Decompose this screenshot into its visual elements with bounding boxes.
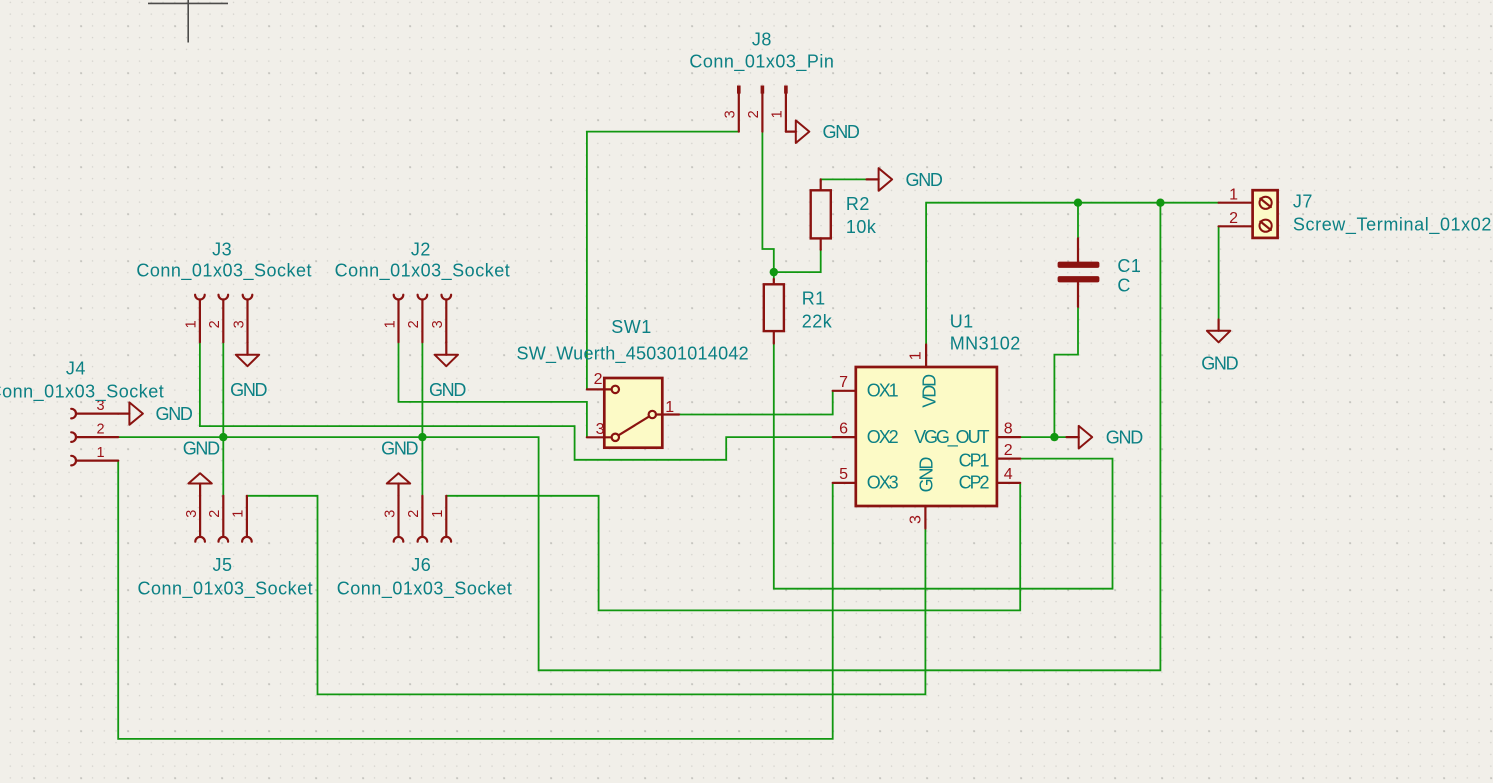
svg-text:1: 1 (382, 320, 398, 328)
svg-text:Screw_Terminal_01x02: Screw_Terminal_01x02 (1293, 215, 1492, 236)
connector J8 (737, 86, 788, 132)
ground arrow J4 pin3 (118, 402, 143, 424)
svg-text:J6: J6 (411, 555, 431, 575)
pin number J2-2 (406, 320, 422, 328)
svg-text:1: 1 (231, 510, 247, 518)
svg-text:GND: GND (1201, 354, 1238, 374)
svg-text:GND: GND (916, 457, 936, 493)
value C (1117, 276, 1131, 296)
pin number J8-3 (723, 110, 739, 118)
wire node A to R1 top (773, 272, 775, 281)
pin number U1-3 (908, 515, 925, 524)
value 10k (846, 217, 877, 237)
pin number U1-5 (839, 466, 848, 483)
value Conn_01x03_Socket J4 (0, 381, 164, 402)
svg-text:3: 3 (723, 110, 739, 118)
svg-text:SW1: SW1 (611, 317, 652, 337)
svg-text:1: 1 (430, 510, 446, 518)
pin number J5-1 (231, 510, 247, 518)
pin number U1-8 (1004, 420, 1013, 437)
pin number J6-2 (406, 510, 422, 518)
svg-text:J7: J7 (1293, 192, 1313, 212)
wire J6 pin1 to U1 CP2 (446, 484, 1020, 611)
svg-text:J3: J3 (212, 240, 232, 260)
pin number J2-3 (430, 320, 446, 328)
label J8 (752, 29, 772, 49)
pin number U1-1 (908, 351, 925, 360)
svg-text:U1: U1 (950, 311, 974, 331)
pin name CP1 (959, 451, 990, 471)
svg-text:R2: R2 (846, 194, 870, 214)
svg-text:Conn_01x03_Socket: Conn_01x03_Socket (136, 261, 312, 282)
value Conn_01x03_Pin (689, 51, 834, 72)
svg-text:GND: GND (823, 122, 860, 142)
wire J4 pin1 to U1 OX3 (118, 461, 833, 739)
svg-text:1: 1 (184, 320, 200, 328)
pin name OX3 (867, 473, 899, 493)
switch SW1 (587, 378, 679, 448)
svg-text:8: 8 (1004, 420, 1013, 437)
wire C1 bottom to node C (1054, 306, 1078, 437)
wire U1 VGG_OUT to GND arrow (1020, 436, 1067, 438)
pin number SW1-1 (665, 399, 674, 416)
svg-text:3: 3 (596, 421, 605, 438)
junction node A (770, 268, 778, 276)
connector J4 (71, 409, 118, 466)
svg-text:Conn_01x03_Socket: Conn_01x03_Socket (0, 381, 164, 402)
pin number J3-1 (184, 320, 200, 328)
label SW1 (611, 317, 652, 337)
value Conn_01x03_Socket J2 (335, 261, 511, 282)
svg-text:GND: GND (429, 380, 466, 400)
svg-text:C: C (1117, 276, 1131, 296)
pin number SW1-2 (594, 371, 603, 388)
svg-text:1: 1 (96, 445, 104, 461)
ground symbol J2 pin3 (435, 342, 458, 366)
pin number U1-4 (1004, 466, 1013, 483)
svg-text:3: 3 (908, 515, 925, 524)
svg-text:J8: J8 (752, 29, 772, 49)
svg-text:2: 2 (746, 110, 762, 118)
svg-text:2: 2 (1004, 442, 1013, 459)
svg-text:1: 1 (908, 351, 925, 360)
label GND at J8 (823, 122, 860, 142)
pin number J6-3 (382, 510, 398, 518)
pin name CP2 (959, 473, 990, 493)
value 22k (802, 311, 833, 331)
svg-text:GND: GND (156, 404, 193, 424)
label J5 (212, 555, 232, 575)
svg-text:VGG_OUT: VGG_OUT (914, 427, 989, 448)
svg-text:1: 1 (770, 110, 786, 118)
connector J2 (394, 295, 451, 342)
svg-text:J4: J4 (66, 359, 86, 379)
pin name OX1 (867, 381, 899, 401)
svg-text:4: 4 (1004, 466, 1013, 483)
junction node B (J3/J5) (219, 433, 227, 441)
svg-text:C1: C1 (1117, 256, 1141, 276)
pin number J5-2 (207, 510, 223, 518)
pin number J3-2 (207, 320, 223, 328)
svg-text:3: 3 (184, 510, 200, 518)
pin number J4-2 (96, 421, 104, 437)
value SW_Wuerth_450301014042 (517, 344, 749, 365)
svg-text:2: 2 (207, 510, 223, 518)
ground arrow R2 (867, 168, 893, 191)
svg-text:SW_Wuerth_450301014042: SW_Wuerth_450301014042 (517, 344, 749, 365)
pin number J2-1 (382, 320, 398, 328)
value Conn_01x03_Socket J6 (337, 578, 513, 599)
wire J7 pin2 to GND (1218, 226, 1220, 319)
label GND at J4 (156, 404, 193, 424)
label GND at J6 (381, 439, 418, 459)
wire GND net J4 pin2 long (118, 203, 1160, 671)
resistor R1 (764, 279, 784, 344)
wire J8 pin3 to SW1 pin2 (587, 132, 739, 390)
label J3 (212, 240, 232, 260)
wire J3 pin2 to J5 pin2 (222, 342, 224, 496)
svg-text:6: 6 (839, 420, 848, 437)
wire R2 bottom to node A (774, 249, 821, 272)
pin name OX2 (867, 427, 899, 447)
junction C1 top (1074, 199, 1082, 207)
label J2 (411, 240, 431, 260)
connector J7 screw terminal (1219, 190, 1278, 238)
svg-text:2: 2 (96, 421, 104, 437)
value Conn_01x03_Socket J3 (136, 261, 312, 282)
pin number J4-3 (96, 398, 104, 414)
svg-text:OX3: OX3 (867, 473, 899, 493)
wire R1 bottom to U1 CP1 (774, 342, 1113, 589)
svg-text:R1: R1 (802, 288, 826, 308)
svg-text:2: 2 (594, 371, 603, 388)
svg-text:Conn_01x03_Socket: Conn_01x03_Socket (137, 578, 313, 599)
svg-text:1: 1 (665, 399, 674, 416)
svg-text:J5: J5 (212, 555, 232, 575)
ground symbol J3 pin3 (236, 342, 259, 366)
pin number J5-3 (184, 510, 200, 518)
wire J3 pin1 to U1 OX2 (200, 342, 833, 460)
IC U1 MN3102 (833, 345, 1021, 529)
svg-text:5: 5 (839, 466, 848, 483)
pin number U1-6 (839, 420, 848, 437)
pin number J7-1 (1229, 186, 1238, 203)
label GND at J2 (429, 380, 466, 400)
label C1 (1117, 256, 1141, 276)
pin number J4-1 (96, 445, 104, 461)
svg-text:GND: GND (230, 380, 267, 400)
svg-text:10k: 10k (846, 217, 877, 237)
svg-text:1: 1 (1229, 186, 1238, 203)
wire U1 VDD to J7 pin1 (926, 203, 1219, 345)
ground symbol J5 pin3 up (188, 473, 211, 496)
pin number J8-2 (746, 110, 762, 118)
pin number J7-2 (1229, 210, 1238, 227)
value Screw_Terminal_01x02 (1293, 215, 1492, 236)
svg-text:2: 2 (406, 320, 422, 328)
label J7 (1293, 192, 1313, 212)
svg-text:2: 2 (1229, 210, 1238, 227)
wire SW1 pin1 to U1 OX1 (679, 391, 833, 415)
ground arrow VGG_OUT (1067, 426, 1093, 449)
label GND at J3 (230, 380, 267, 400)
svg-text:MN3102: MN3102 (950, 334, 1021, 354)
pin number J6-1 (430, 510, 446, 518)
svg-text:Conn_01x03_Pin: Conn_01x03_Pin (689, 51, 834, 72)
pin number U1-2 (1004, 442, 1013, 459)
svg-text:GND: GND (183, 439, 220, 459)
label GND at VGG_OUT (1106, 428, 1143, 448)
crosshair top left (148, 0, 228, 43)
svg-text:2: 2 (207, 320, 223, 328)
connector J6 (394, 496, 451, 542)
wire J8 pin2 to node A (762, 132, 773, 273)
svg-text:7: 7 (839, 374, 848, 391)
wire J2 pin2 to J6 pin2 (421, 342, 423, 496)
svg-text:GND: GND (906, 170, 943, 190)
pin number J8-1 (770, 110, 786, 118)
pin number U1-7 (839, 374, 848, 391)
value Conn_01x03_Socket J5 (137, 578, 313, 599)
resistor R2 (811, 179, 831, 249)
wire J5 pin1 to U1 pin3 (247, 496, 926, 695)
svg-text:2: 2 (406, 510, 422, 518)
label GND at R2 (906, 170, 943, 190)
wire C1 top (1077, 203, 1079, 239)
ground arrow J8 pin1 (786, 120, 809, 143)
junction VGG_OUT (1050, 433, 1058, 441)
value MN3102 (950, 334, 1021, 354)
svg-text:GND: GND (381, 439, 418, 459)
label GND at J5 (183, 439, 220, 459)
pin number J3-3 (231, 320, 247, 328)
ground symbol J7 pin2 (1207, 320, 1230, 343)
ground symbol J6 pin3 up (387, 473, 410, 496)
label J6 (411, 555, 431, 575)
wire J2 pin1 to SW1 pin3 (399, 342, 587, 437)
svg-text:3: 3 (382, 510, 398, 518)
svg-text:CP1: CP1 (959, 451, 990, 471)
svg-text:Conn_01x03_Socket: Conn_01x03_Socket (337, 578, 513, 599)
svg-text:3: 3 (430, 320, 446, 328)
svg-text:CP2: CP2 (959, 473, 990, 493)
svg-text:3: 3 (231, 320, 247, 328)
junction node C (J2/J6) (418, 433, 426, 441)
svg-text:GND: GND (1106, 428, 1143, 448)
pin name GND (916, 457, 936, 493)
svg-text:Conn_01x03_Socket: Conn_01x03_Socket (335, 261, 511, 282)
svg-text:OX1: OX1 (867, 381, 899, 401)
svg-text:OX2: OX2 (867, 427, 899, 447)
pin name VDD (919, 374, 939, 408)
svg-text:VDD: VDD (919, 374, 939, 408)
label GND at J7 (1201, 354, 1238, 374)
label J4 (66, 359, 86, 379)
label R2 (846, 194, 870, 214)
svg-text:J2: J2 (411, 240, 431, 260)
label U1 (950, 311, 974, 331)
pin number SW1-3 (596, 421, 605, 438)
junction VDD right (1156, 199, 1164, 207)
connector J5 (195, 496, 251, 542)
label R1 (802, 288, 826, 308)
connector J3 (195, 295, 252, 342)
pin name VGG_OUT (914, 427, 989, 448)
capacitor C1 (1058, 238, 1100, 306)
wire R2 top to GND arrow (821, 179, 868, 182)
svg-text:22k: 22k (802, 311, 833, 331)
